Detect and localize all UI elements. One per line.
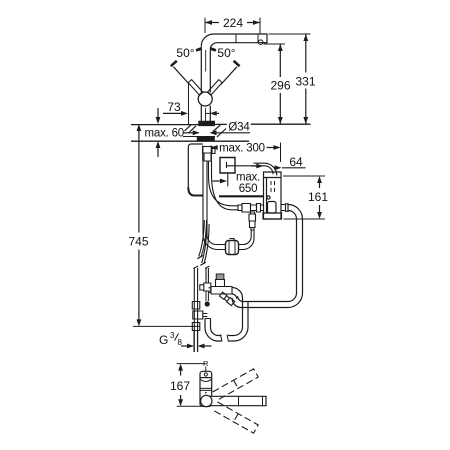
svg-text:64: 64 — [289, 155, 303, 169]
dimension 331 vertical line — [269, 34, 311, 124]
left pipe nut 2 — [192, 323, 200, 331]
G 3/8 text — [159, 331, 183, 347]
supply hose pair 1 — [199, 220, 207, 257]
tee fitting down — [249, 212, 256, 230]
base flange — [199, 121, 215, 125]
bottom view solid spout arm — [206, 396, 266, 405]
dimension max60 arrows — [156, 108, 161, 157]
dimension 296 vertical line — [264, 44, 286, 124]
left pipe elbow — [193, 311, 208, 319]
left pipe cut top — [193, 266, 198, 269]
spray hose shaft to inlet chain — [209, 161, 233, 210]
svg-text:G: G — [159, 333, 168, 347]
dimension 73 — [163, 84, 219, 124]
plug box — [220, 158, 235, 174]
G 3/8 dimension arrows — [181, 344, 212, 349]
faucet vertical pipe upper — [201, 47, 210, 93]
dimension 745 — [133, 124, 200, 326]
box inlet chain — [232, 204, 264, 213]
svg-text:73: 73 — [167, 100, 181, 114]
second pipe valve block — [200, 283, 211, 291]
hose 2 cut end — [200, 262, 205, 265]
svg-text:650: 650 — [239, 183, 258, 195]
svg-text:50°: 50° — [176, 46, 194, 60]
bottom view dashed spout lower — [213, 402, 259, 433]
diameter 34 text — [227, 121, 251, 132]
shelf thick line — [219, 195, 263, 197]
bottom view body — [200, 371, 212, 406]
svg-text:max. 300: max. 300 — [219, 143, 265, 155]
left lever bar — [171, 61, 203, 95]
deck hatch right — [213, 125, 226, 137]
svg-text:50°: 50° — [217, 46, 235, 60]
diagonal outlet fitting — [219, 292, 234, 306]
svg-text:161: 161 — [308, 190, 328, 204]
valve outlet hose down — [232, 288, 248, 328]
dimension 161 — [283, 176, 325, 219]
second pipe cut top — [205, 266, 210, 269]
weight hose shaft leg — [203, 161, 226, 250]
plug cable below box — [227, 173, 229, 186]
lower cluster left pipe — [194, 268, 197, 352]
control box body — [263, 172, 282, 219]
deck hatch left — [185, 125, 197, 133]
svg-text:296: 296 — [270, 79, 290, 93]
dimension 64 — [275, 165, 306, 170]
faucet spout outline — [201, 34, 267, 49]
supply hose pair 2 — [202, 224, 209, 264]
svg-text:max. 60: max. 60 — [145, 128, 185, 140]
mounting bracket C-shape — [188, 144, 203, 189]
deck bottom line — [131, 140, 249, 142]
bottom view dimension 167 — [177, 364, 206, 407]
svg-text:224: 224 — [223, 16, 243, 30]
mounting nut below deck — [197, 137, 214, 141]
hose 1 cut end — [197, 256, 202, 259]
bottom view pivot circle — [201, 395, 212, 406]
break cut marks — [221, 335, 229, 342]
pipe centerline — [205, 50, 207, 121]
svg-text:331: 331 — [295, 74, 315, 88]
svg-text:max.: max. — [236, 172, 260, 184]
svg-text:8: 8 — [178, 338, 183, 347]
svg-text:745: 745 — [128, 234, 148, 248]
G 3/8 supply pipe — [194, 331, 198, 352]
lower cluster second pipe — [206, 268, 208, 283]
svg-text:Ø34: Ø34 — [228, 122, 250, 134]
max650 left arrow — [220, 179, 227, 184]
deck top line — [131, 123, 311, 125]
stub with ball end — [206, 291, 208, 301]
U loop left part after break — [205, 319, 222, 342]
U loop bottom — [228, 327, 248, 341]
dimension diameter 34 — [183, 130, 250, 136]
left pipe nut 1 — [192, 302, 200, 310]
elbow to left pipe link — [205, 318, 211, 320]
50 deg arc arrowheads at pipe — [196, 49, 216, 51]
big loop hose from box — [281, 204, 288, 212]
svg-text:3: 3 — [170, 331, 175, 340]
shut-off valve cartridge — [209, 274, 233, 294]
dimension 224 line — [205, 18, 260, 34]
lever ball joint — [198, 92, 212, 106]
dimension max 300 — [211, 143, 281, 163]
counterweight — [226, 239, 239, 255]
right lever bar — [207, 61, 239, 95]
shaft connector blocks — [203, 147, 216, 162]
svg-text:167: 167 — [170, 379, 190, 393]
bottom view dashed spout upper — [213, 369, 259, 400]
shaft below deck — [203, 146, 212, 162]
weight hose right leg to tee — [239, 230, 255, 250]
spout aerator — [258, 40, 263, 45]
plug cable to control box — [227, 162, 277, 176]
faucet vertical pipe lower — [201, 106, 210, 122]
max650 right arrow — [256, 164, 263, 169]
